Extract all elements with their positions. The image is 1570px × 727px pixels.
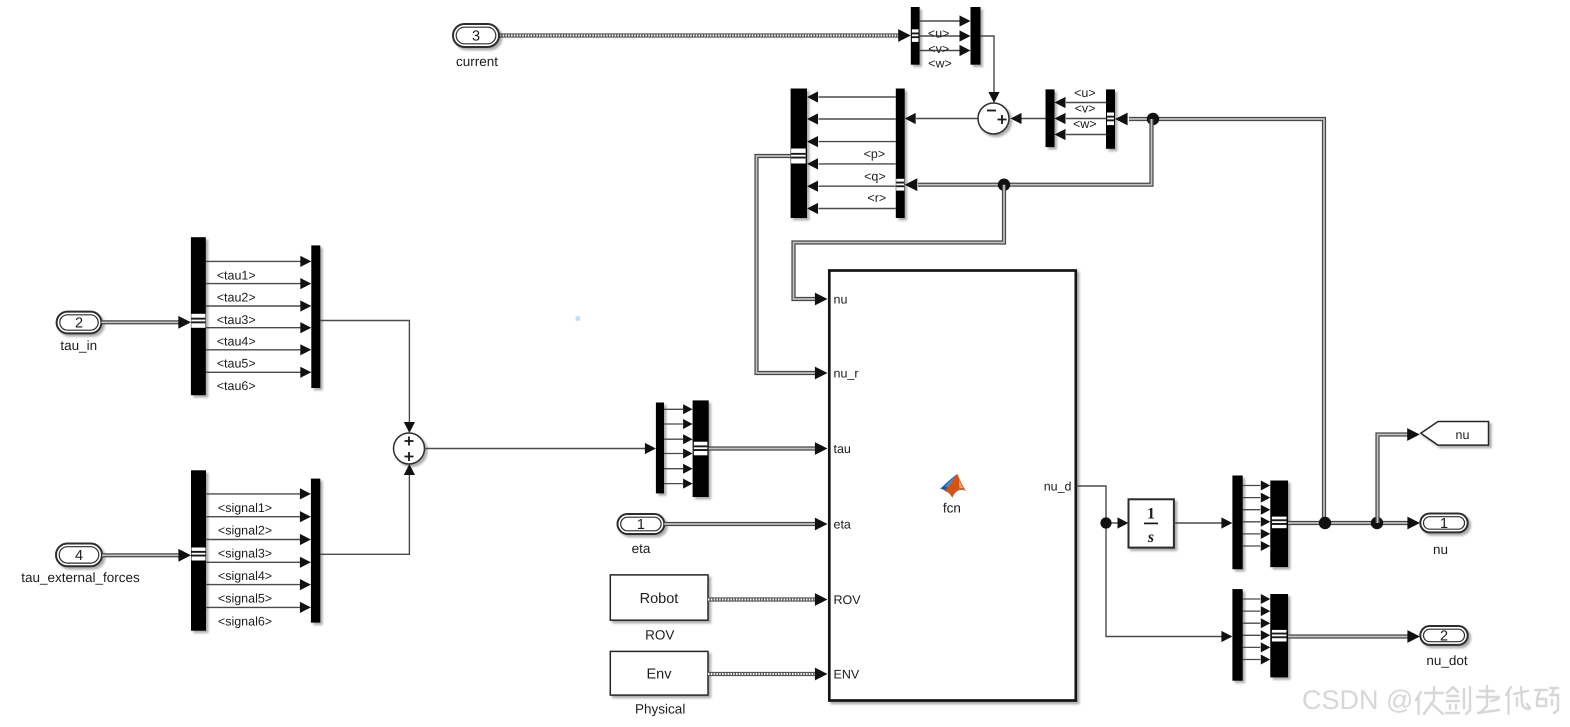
svg-text:2: 2 (1440, 629, 1448, 645)
outport 1 nu (1420, 514, 1467, 533)
svg-text:ROV: ROV (645, 628, 674, 643)
svg-text:<u>: <u> (1074, 86, 1096, 100)
wire Env to fcn (dotted) (708, 672, 816, 676)
wire nu bus to outport 1 (1288, 521, 1408, 525)
wire nu_d out, down to nu_dot demux (1077, 486, 1222, 637)
wire nu_dot demux6 (1243, 659, 1261, 661)
svg-text:<tau6>: <tau6> (217, 379, 256, 393)
svg-text:<v>: <v> (1075, 101, 1096, 115)
wire demux6 (664, 483, 683, 485)
svg-text:nu: nu (1456, 428, 1470, 442)
wire nu_dot bus to outport 2 (1288, 634, 1408, 638)
bus selector tau (191, 237, 206, 395)
bus creator (nu_r) flipped (791, 89, 807, 219)
bus creator tau (693, 400, 709, 497)
wire sel line 6 r (819, 208, 896, 210)
MATLAB Function block fcn (829, 271, 1076, 701)
sum block S1 (minus current) (978, 103, 1009, 134)
wire tau bus to fcn (709, 446, 816, 450)
svg-text:eta: eta (834, 518, 851, 532)
svg-text:3: 3 (472, 29, 480, 45)
bus creator nu_dot (1270, 594, 1288, 677)
wire: nu_r bus from bus creator to fcn nu_r input (757, 156, 817, 373)
integrator block 1/s (1129, 499, 1174, 547)
wire Robot to fcn (dotted) (708, 597, 816, 601)
svg-text:<signal5>: <signal5> (218, 592, 272, 606)
wire signal3 (206, 539, 300, 541)
wire sel line 4 p (819, 163, 896, 165)
demux nu_dot (1232, 589, 1242, 681)
svg-text:2: 2 (75, 316, 83, 332)
wire sum2 to demux (425, 448, 646, 450)
svg-text:<tau4>: <tau4> (217, 335, 256, 349)
wire nu demux2 (1243, 497, 1261, 499)
svg-text:<tau1>: <tau1> (217, 268, 256, 282)
svg-text:Physical: Physical (635, 702, 685, 717)
wire port2 to bus selector (101, 320, 179, 324)
svg-text:<signal1>: <signal1> (218, 501, 272, 515)
svg-text:Robot: Robot (640, 591, 679, 607)
outport 2 nu_dot (1420, 626, 1467, 645)
wire nu_dot demux1 (1243, 598, 1261, 600)
svg-text:eta: eta (632, 541, 651, 556)
svg-text:1: 1 (637, 517, 645, 533)
wire demux2 (664, 423, 683, 425)
junction dot top (1147, 113, 1159, 125)
wire eta to fcn (664, 522, 816, 526)
watermark glyph zou (1477, 686, 1499, 713)
wire tau5 (206, 349, 301, 351)
wire demux5 (664, 468, 683, 470)
bus selector signals (191, 470, 206, 630)
MATLAB logo (940, 474, 966, 498)
wire tau4 (206, 327, 301, 329)
sum block S2 (tau_in + tau_ext) (394, 433, 425, 464)
wire: current bus (dotted) inport3 to bus selector (497, 33, 900, 37)
wire mux_nur to sum1 + input (1022, 118, 1046, 120)
svg-text:<signal4>: <signal4> (218, 569, 272, 583)
svg-text:current: current (456, 54, 498, 69)
inport 4 tau_external_forces (56, 544, 102, 567)
wire <v> mid (920, 35, 960, 37)
junction dot nu_d (1100, 517, 1111, 528)
wire mux_tau to sum2 top (320, 321, 409, 423)
wire <v> (1066, 118, 1106, 120)
inport 3 (453, 24, 499, 47)
inport 2 tau_in (57, 312, 102, 334)
svg-text:nu: nu (834, 293, 848, 307)
wire: nu bus feedback vertical from out junction up and left into bus selector uvw (1129, 119, 1324, 523)
watermark glyph dai (1506, 687, 1530, 714)
wire nu demux6 (1243, 545, 1261, 547)
svg-text:tau: tau (834, 442, 851, 456)
wire signal4 (206, 561, 300, 563)
watermark glyph zhang (1416, 687, 1443, 714)
wire nu_dot demux5 (1243, 646, 1261, 648)
svg-text:tau_in: tau_in (60, 338, 97, 353)
blue speck artifact (576, 316, 581, 320)
bus creator nu (1270, 481, 1288, 568)
svg-text:<w>: <w> (928, 57, 952, 71)
wire branch to integrator (1106, 522, 1118, 524)
svg-text:nu: nu (1433, 542, 1448, 557)
mux (current vector) (971, 7, 981, 65)
wire sel line 5 q (819, 185, 896, 187)
svg-text:Env: Env (647, 667, 673, 683)
svg-text:CSDN @: CSDN @ (1302, 685, 1413, 715)
wire <w> bottom (920, 50, 960, 52)
svg-text:s: s (1147, 529, 1154, 546)
wire nu demux1 (1243, 485, 1261, 487)
wire nu demux5 (1243, 533, 1261, 535)
svg-text:1: 1 (1147, 506, 1155, 523)
demux tau (656, 403, 664, 494)
wire tau6 (206, 371, 301, 373)
bus selector (current) (911, 7, 920, 65)
wire: nu bus to fcn nu input (794, 185, 1005, 299)
junction dot feedback (1319, 517, 1331, 529)
wire tau3 (206, 305, 301, 307)
wire <u> (1066, 102, 1106, 104)
bus selector (nu uvw) flipped (1106, 89, 1115, 148)
junction dot mid (998, 179, 1010, 191)
svg-text:<signal3>: <signal3> (218, 546, 272, 560)
wire port4 to bus selector (102, 553, 179, 557)
wire integrator to demux nu (1174, 522, 1222, 524)
wire mux to sum1 (981, 36, 995, 93)
wire nu_dot demux3 (1243, 622, 1261, 624)
wire nu_dot demux4 (1243, 634, 1261, 636)
Env constant block (610, 651, 708, 695)
svg-text:nu_d: nu_d (1044, 480, 1072, 494)
wire sel line 3 (819, 141, 896, 143)
wire to goto tag nu (1378, 435, 1409, 524)
svg-text:<u>: <u> (928, 26, 950, 40)
bus selector (nu pqr) flipped (896, 89, 905, 219)
svg-text:<tau5>: <tau5> (217, 357, 256, 371)
wire signal6 (206, 606, 300, 608)
mux signals (311, 479, 320, 623)
wire sel line 2 (819, 118, 896, 120)
wire <u> top (920, 20, 960, 22)
svg-text:<q>: <q> (864, 169, 886, 183)
svg-text:<w>: <w> (1073, 117, 1097, 131)
mux tau (311, 245, 320, 388)
wire sel line 1 (819, 96, 896, 98)
goto tag nu (1421, 422, 1489, 446)
wire demux1 (664, 408, 683, 410)
wire sum1 output to bus selector nu2 (916, 118, 978, 120)
svg-text:1: 1 (1440, 516, 1448, 532)
svg-text:tau_external_forces: tau_external_forces (21, 570, 140, 585)
Robot constant block (610, 575, 708, 620)
svg-text:<tau3>: <tau3> (217, 313, 256, 327)
demux nu (1232, 476, 1242, 570)
mux (nu uvw vector) (1046, 89, 1055, 147)
junction dot tag (1371, 517, 1383, 529)
wire nu_dot demux2 (1243, 610, 1261, 612)
watermark glyph ma (1535, 688, 1558, 713)
svg-text:4: 4 (75, 548, 83, 564)
inport 1 eta (618, 514, 665, 534)
wire <w> (1066, 134, 1106, 136)
svg-text:<r>: <r> (867, 191, 886, 205)
wire signal2 (206, 516, 300, 518)
svg-text:ROV: ROV (834, 593, 862, 607)
svg-text:ENV: ENV (834, 668, 860, 682)
svg-text:nu_dot: nu_dot (1426, 653, 1468, 668)
wire signal1 (206, 493, 300, 495)
svg-text:<signal6>: <signal6> (218, 614, 272, 628)
svg-text:<v>: <v> (928, 42, 949, 56)
wire nu demux4 (1243, 521, 1261, 523)
wire demux4 (664, 453, 683, 455)
svg-text:nu_r: nu_r (834, 367, 859, 381)
wire tau1 (206, 260, 301, 262)
wire nu demux3 (1243, 509, 1261, 511)
watermark glyph jian (1446, 687, 1470, 714)
wire: nu bus down to y184 and into pqr selector (918, 119, 1152, 185)
svg-text:<tau2>: <tau2> (217, 291, 256, 305)
svg-text:fcn: fcn (943, 500, 961, 515)
wire mux_sig to sum2 bottom (320, 475, 409, 555)
svg-text:<signal2>: <signal2> (218, 524, 272, 538)
wire signal5 (206, 584, 300, 586)
wire demux3 (664, 438, 683, 440)
wire tau2 (206, 283, 301, 285)
svg-text:<p>: <p> (864, 147, 886, 161)
